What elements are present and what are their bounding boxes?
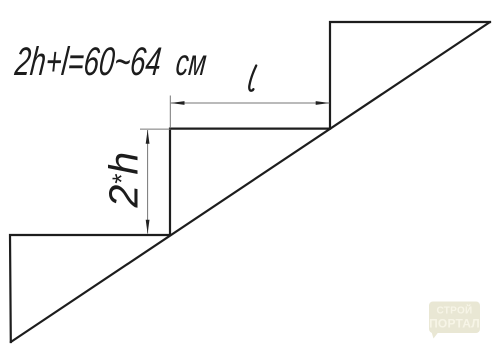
- svg-text:СТРОЙ: СТРОЙ: [436, 304, 472, 317]
- formula label 2h+l=60~64 см: [12, 40, 208, 84]
- arrowhead right of dimension l: [316, 101, 330, 105]
- dimension line l: [171, 102, 330, 104]
- svg-text:2h+l=60~64 см: 2h+l=60~64 см: [12, 40, 208, 84]
- arrowhead bottom of dimension 2*h: [146, 220, 150, 234]
- watermark badge: [429, 302, 480, 339]
- label l (script ell): [249, 66, 256, 91]
- extension line for dimension l: [169, 96, 171, 129]
- arrowhead left of dimension l: [171, 101, 185, 105]
- arrowhead top of dimension 2*h: [146, 130, 150, 144]
- svg-text:ПОРТАЛ: ПОРТАЛ: [429, 317, 480, 331]
- dimension line 2*h: [147, 130, 149, 234]
- extension line for dimension 2*h: [140, 128, 171, 130]
